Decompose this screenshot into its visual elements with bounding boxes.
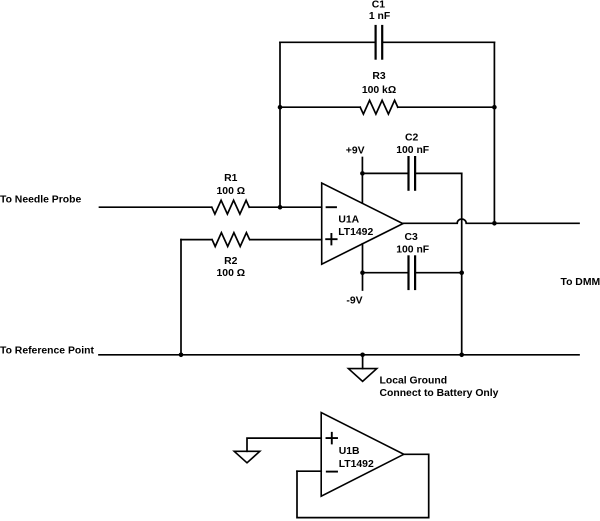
wire: R2 left segment from corner	[181, 239, 212, 241]
svg-text:C3: C3	[404, 232, 418, 243]
node: R3/C1 right junction	[492, 105, 497, 110]
svg-text:+9V: +9V	[346, 145, 365, 156]
node: R1/feedback junction	[278, 205, 283, 210]
svg-text:R1: R1	[224, 173, 238, 184]
wire: feedback loop left vertical	[279, 42, 281, 207]
capacitor C1	[376, 26, 383, 59]
wire: R1 to U1A inverting input	[250, 206, 322, 208]
wire: U1B non-inverting input	[247, 438, 321, 451]
wire: +9V stub down to U1A	[361, 158, 363, 204]
node: output/feedback junction	[492, 221, 497, 226]
resistor R3	[360, 100, 398, 114]
svg-text:100 Ω: 100 Ω	[217, 268, 246, 279]
svg-text:C2: C2	[405, 133, 419, 144]
wire: R2 leg down to reference line	[180, 240, 182, 355]
capacitor C2	[409, 157, 416, 190]
wire: C3 row right segment	[415, 272, 461, 274]
wire: decoupling rail right vertical down to reference line	[461, 173, 463, 354]
svg-text:C1: C1	[372, 0, 386, 10]
wire: R2 to U1A non-inverting input	[250, 239, 322, 241]
node: reference/rail junction	[459, 353, 464, 358]
ground: U1B input ground symbol	[234, 451, 260, 463]
svg-text:LT1492: LT1492	[338, 227, 373, 238]
svg-text:R2: R2	[224, 256, 238, 267]
svg-text:100 Ω: 100 Ω	[217, 186, 246, 197]
node: R3/C1 left junction	[278, 105, 283, 110]
svg-text:Local Ground: Local Ground	[380, 376, 448, 387]
svg-text:100 nF: 100 nF	[396, 145, 429, 156]
wire: U1B feedback loop	[297, 454, 429, 517]
wire: C2 row right segment	[415, 172, 461, 174]
svg-text:100 kΩ: 100 kΩ	[362, 85, 396, 96]
wire: R3 rail right segment	[398, 106, 495, 108]
wire: U1A output with hop over rail	[403, 219, 579, 223]
node: reference/R2 junction	[179, 353, 184, 358]
svg-text:U1A: U1A	[338, 215, 359, 226]
svg-text:LT1492: LT1492	[339, 459, 374, 470]
node: reference/ground junction	[360, 353, 365, 358]
wire: needle probe line to R1	[100, 206, 212, 208]
capacitor C3	[409, 256, 416, 289]
wire: reference point line	[99, 354, 579, 356]
svg-text:To Reference Point: To Reference Point	[0, 345, 94, 356]
node: +9V/C2 junction	[360, 171, 365, 176]
wire: C3 row left segment	[363, 272, 409, 274]
resistor R2	[212, 233, 250, 247]
svg-text:Connect to Battery Only: Connect to Battery Only	[380, 388, 499, 399]
wire: R3 rail left segment	[280, 106, 360, 108]
wire: C2 row left segment	[362, 172, 408, 174]
svg-text:To DMM: To DMM	[561, 277, 600, 288]
svg-text:R3: R3	[372, 71, 386, 82]
svg-text:-9V: -9V	[346, 296, 362, 307]
op-amp U1B	[321, 413, 404, 497]
wire: U1B inverting input	[297, 470, 321, 472]
wire: -9V stub up to U1A	[362, 244, 364, 290]
wire: C1 top rail left segment	[280, 41, 375, 43]
resistor R1	[212, 200, 249, 214]
svg-text:U1B: U1B	[339, 446, 360, 457]
node: -9V/C3 junction	[360, 270, 365, 275]
svg-text:1 nF: 1 nF	[369, 11, 390, 22]
wire: C1 top rail right segment	[383, 41, 495, 43]
svg-text:100 nF: 100 nF	[396, 244, 429, 255]
ground: local ground symbol	[348, 355, 376, 382]
svg-text:To Needle Probe: To Needle Probe	[0, 194, 81, 205]
op-amp U1A	[322, 183, 403, 264]
node: C3 right junction	[459, 270, 464, 275]
wire: feedback loop right vertical	[493, 42, 495, 223]
